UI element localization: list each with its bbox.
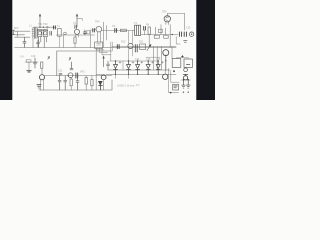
wire drops to mid row [129,31,133,62]
node dot H [183,79,185,81]
diode D1 [114,61,118,74]
nested corner wires [169,69,179,93]
transistor Q12 [101,75,106,80]
capacitor C10 inter-rail [37,40,40,47]
svg-text:C26: C26 [156,58,161,61]
svg-text:C21: C21 [58,70,63,73]
transformer T1 [58,28,62,36]
input jack J1 [13,30,15,34]
svg-text:LM380 1 W amp: LM380 1 W amp [117,85,135,88]
svg-text:C24: C24 [135,58,140,61]
supply rail B [106,73,176,75]
node dot F [128,60,129,61]
transistor Q5 [164,16,170,22]
wire nested L3 [99,48,107,52]
terminal dots below grounds [183,92,184,93]
capacitor C28 above Q3 [75,25,77,28]
wire vertical mid ladder [122,61,124,70]
wire bottom row [45,75,112,77]
svg-text:C15: C15 [186,27,191,30]
capacitor C2 [50,31,52,35]
terminal bars [174,86,177,88]
capacitor C12 [33,58,36,68]
svg-text:9 V: 9 V [136,84,140,87]
plus mark [141,61,143,63]
capacitor C15 [70,62,73,70]
jack J2 output [189,32,193,36]
capacitor C23 dark pair [135,45,137,53]
wire nested L [95,48,97,90]
capacitor C9 inter-rail [23,37,26,47]
wire top bus [33,26,56,29]
inductor L1 antenna coil [32,28,38,39]
junction dots bus [137,60,138,61]
node dot C [172,34,173,35]
wire lower left [15,36,30,38]
node dot I [187,79,189,81]
speaker SP1 [184,68,188,72]
transistor Q2 [43,30,48,47]
wire feedback loop [167,13,184,30]
svg-text:VR1: VR1 [80,71,85,74]
ground G1 [28,62,30,70]
wire main row [56,34,94,36]
capacitor C7 [179,32,181,36]
transformer T2 [135,25,141,35]
variable capacitor VC3 arrow [103,57,105,67]
node dot A [39,27,40,28]
capacitor C18 electrolytic [136,61,140,74]
terminal box [173,84,179,90]
wire jack drop [176,37,180,45]
svg-text:C19: C19 [31,55,36,58]
wire nested L4 [102,48,111,54]
capacitor C31 [76,76,79,90]
IC U1 box [95,42,103,48]
capacitor C20 electrolytic [156,61,160,74]
capacitor C4 [83,30,86,35]
ground rail bottom [39,80,112,90]
resistor R3 [148,27,150,34]
wire long L to bottom [57,51,112,76]
ground G3 [182,79,186,88]
capacitor C3 [54,26,56,29]
wire coil drop [32,39,34,48]
capacitor C11 [117,45,119,49]
resistor R7 [70,79,72,86]
svg-text:TR1 TR2: TR1 TR2 [38,23,48,26]
resistor R13 [91,80,93,86]
switch S1 box [184,59,192,67]
wire box link [177,58,189,59]
supply rail A [108,69,170,71]
wire caps top bus [110,60,159,62]
plus mark [119,61,121,63]
resistor R1 [74,37,76,43]
trimmer node circle [47,26,49,28]
transistor Q11 [163,74,168,79]
arrowhead mark a [48,57,50,60]
potentiometer arrow [147,45,151,51]
resistor R8 below wire [154,35,159,38]
wire drops right [145,25,171,48]
arrowhead mark b [69,58,71,61]
wire vertical [104,22,107,47]
capacitor C17 [64,76,67,90]
junction dots rail [115,74,116,75]
wire drops top row [64,30,95,47]
capacitor C13 [59,73,62,74]
transistor Q9 [68,73,73,78]
transistor Q1 [37,30,42,47]
wire psu bottom [181,79,190,81]
plus mark [161,61,163,63]
ground rail top [15,47,177,49]
svg-text:SKT: SKT [14,27,19,30]
capacitor C8 [184,32,186,36]
node marks between boxes [181,55,183,57]
plus mark [132,61,134,63]
svg-text:TR5: TR5 [162,11,167,14]
transistor Q8 [39,75,44,80]
svg-text:TR3: TR3 [73,23,78,26]
diode D2 [127,61,131,74]
ground G5 small [184,41,187,43]
node dot E [115,60,116,61]
transistor Q7 [163,50,169,56]
plus mark [151,61,153,63]
capacitor C30 dark [93,29,95,32]
resistor R6 [85,78,87,85]
wire corner to PSU [171,47,173,59]
ground G4 [186,79,190,88]
resistor R5 [41,62,43,68]
capacitor C5 [115,28,117,32]
capacitor C19 electrolytic [146,61,150,74]
variable capacitor VC1 arrow [39,15,41,27]
wire bottom left [25,61,38,63]
wire input pair [14,31,30,37]
wire nested L2 [96,48,104,50]
svg-text:C25: C25 [146,58,151,61]
transistor Q10 [99,81,103,90]
resistor R9 below wire [164,35,169,38]
svg-text:R10: R10 [121,41,126,44]
resistor R2 [121,29,127,31]
capacitor C22 left [107,61,110,70]
resistor R4 [140,44,146,49]
resistor R12 top-left of bottom row [26,60,31,62]
wire mid drops [153,47,157,71]
right black bar [196,0,215,100]
resistor R15 [159,29,163,32]
capacitor C6 [144,26,146,30]
capacitor C16 [58,76,61,90]
battery B1 box [172,59,181,68]
transistor Q3 [75,29,80,34]
ground G2 hatch [37,84,41,88]
left black bar [0,0,12,100]
svg-text:TR4: TR4 [95,21,100,24]
resistor R16 small [87,30,89,34]
node dot D [173,70,175,72]
wire mid lower [146,56,160,58]
variable capacitor VC2 arrow [76,15,78,27]
svg-text:R14: R14 [20,56,25,59]
wire row2 [101,30,134,32]
node dot B [43,27,44,28]
transistor Q4 [96,26,102,32]
wire row right [141,34,178,36]
svg-text:R11: R11 [139,41,144,44]
transistor Q6 [128,43,133,48]
stub leads below rail [116,74,129,78]
capacitor C14 [76,73,78,78]
node dot G [170,92,172,94]
faint component labels [14,11,191,88]
wire vertical pair right of U1 [111,42,112,61]
varicap node circle [64,32,67,35]
wire middle row [112,46,176,48]
